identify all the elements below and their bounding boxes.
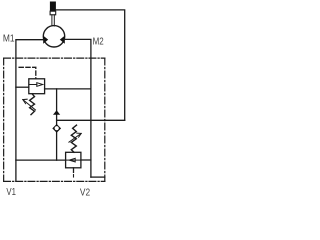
svg-text:M2: M2 (93, 36, 104, 48)
svg-text:M1: M1 (3, 32, 15, 44)
svg-text:V1: V1 (6, 186, 16, 198)
svg-text:V2: V2 (80, 186, 90, 198)
